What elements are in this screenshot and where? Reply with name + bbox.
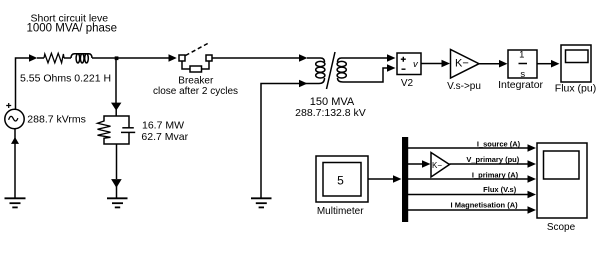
svg-text:K−: K− [455,58,469,70]
svg-text:288.7 kVrms: 288.7 kVrms [27,113,86,125]
svg-text:I Magnetisation (A): I Magnetisation (A) [451,200,519,209]
wire secondary bottom to V2 [355,68,387,82]
svg-text:Scope: Scope [547,222,576,233]
ground under source [5,197,26,199]
node junction dot [115,56,119,60]
transformer core slash [327,52,336,89]
signal line V_primary with gain [408,163,422,165]
wire [37,57,44,59]
svg-text:V2: V2 [401,78,414,89]
gain block K2 [431,153,450,178]
svg-text:Breaker: Breaker [178,75,214,86]
title text [27,12,118,34]
svg-text:62.7 Mvar: 62.7 Mvar [141,131,188,143]
wire load to ground [116,144,118,179]
wire to junction and breaker [92,57,169,59]
arrow into transformer primary top [299,54,308,62]
wire secondary top to V2 [355,57,387,59]
svg-text:I_source (A): I_source (A) [477,140,521,149]
svg-text:V.s->pu: V.s->pu [447,81,481,92]
wire multimeter to demux [368,178,393,180]
wire top left corner to source [16,58,30,110]
signal line I_primary [408,178,528,180]
AC source circle [5,109,24,128]
svg-text:I_primary (A): I_primary (A) [472,171,519,180]
wire V2 to gain [421,63,442,65]
breaker right terminal square [206,55,212,61]
svg-text:close after 2 cycles: close after 2 cycles [153,86,238,97]
breaker internal resistance loop [182,61,190,69]
svg-text:1: 1 [519,49,524,60]
scope block [537,143,587,218]
svg-text:288.7:132.8 kV: 288.7:132.8 kV [295,107,366,119]
sine wave inside source [9,116,18,121]
voltage measurement block V2 [397,53,421,75]
svg-text:1000 MVA/ phase: 1000 MVA/ phase [27,23,118,35]
arrow into resistor [29,54,37,62]
scope block Flux (pu) [561,45,591,82]
arrow into load [111,103,121,111]
load resistor zigzag [98,121,111,138]
arrow into breaker [169,54,177,62]
breaker open switch dashed blade [186,43,210,56]
demux bar [402,137,408,222]
svg-text:150 MVA: 150 MVA [310,96,355,108]
integrator block 1/s [508,50,537,78]
svg-text:Flux (pu): Flux (pu) [555,82,596,94]
signal line Flux [408,194,528,196]
svg-text:16.7 MW: 16.7 MW [142,119,184,131]
load RC parallel block [104,116,129,128]
resistor R 5.55 Ohms [44,53,64,63]
wire junction down to load [115,58,117,106]
transformer secondary winding [338,58,356,62]
plus sign of source [6,103,11,108]
wire breaker to transformer [212,57,299,59]
wire source to ground with arrow [14,129,16,139]
svg-text:Flux (V.s): Flux (V.s) [483,185,517,194]
svg-text:Integrator: Integrator [498,79,543,91]
svg-text:K−: K− [432,161,442,170]
breaker left terminal square [179,55,185,61]
transformer primary winding [307,58,325,62]
wire [64,57,71,59]
svg-text:5: 5 [337,174,344,188]
ground under load [107,197,128,199]
wire gain to integrator [479,63,499,65]
arrow into transformer primary bottom [299,80,308,88]
signal line I Magnetisation [408,209,528,211]
wire transformer bottom to ground [261,84,307,199]
inductor L 0.221 H [71,54,92,58]
multimeter block [316,156,368,202]
svg-text:5.55 Ohms 0.221 H: 5.55 Ohms 0.221 H [20,73,111,85]
svg-text:V_primary (pu): V_primary (pu) [466,155,519,164]
signal line I_source [408,147,528,149]
gain block V.s->pu [451,50,480,79]
wire integrator to flux scope [537,63,551,65]
svg-text:Multimeter: Multimeter [317,206,364,217]
arrow into ground [111,179,122,188]
ground under transformer [251,197,272,199]
load capacitor plates [122,127,134,129]
arrow up into source [11,137,19,144]
